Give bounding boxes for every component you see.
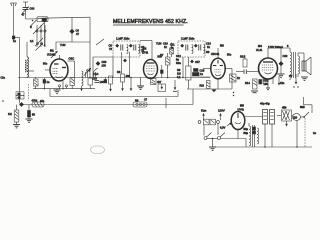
svg-text:4k7: 4k7 (157, 80, 162, 84)
svg-text:400: 400 (126, 74, 131, 78)
svg-text:R8: R8 (206, 50, 210, 54)
svg-text:40µ-40µ: 40µ-40µ (260, 102, 270, 106)
svg-text:100: 100 (102, 64, 107, 68)
svg-text:OSC: OSC (69, 57, 75, 61)
svg-text:50c: 50c (227, 53, 232, 57)
svg-text:150: 150 (264, 82, 269, 86)
svg-text:C8: C8 (109, 44, 113, 48)
svg-text:UBC41: UBC41 (211, 52, 220, 56)
svg-text:B3: B3 (220, 44, 224, 48)
svg-text:UL41: UL41 (256, 48, 263, 52)
svg-text:S: S (30, 25, 32, 29)
svg-text:TUN: TUN (156, 42, 161, 46)
svg-text:100: 100 (100, 80, 105, 84)
svg-text:TUN: TUN (60, 43, 65, 47)
svg-text:R8a: R8a (176, 61, 181, 65)
svg-text:C10: C10 (163, 42, 168, 46)
svg-text:B1: B1 (50, 49, 54, 53)
svg-text:GD.: GD. (40, 99, 45, 103)
svg-text:6,3V: 6,3V (220, 126, 226, 130)
svg-text:R14: R14 (245, 81, 250, 85)
svg-text:R15: R15 (264, 79, 269, 83)
svg-text:C57: C57 (195, 60, 200, 64)
svg-text:50µ: 50µ (244, 127, 249, 131)
svg-text:1M: 1M (177, 72, 181, 76)
svg-text:R7: R7 (160, 53, 164, 57)
svg-text:R9: R9 (177, 68, 181, 72)
svg-text:C4: C4 (87, 69, 91, 73)
svg-text:C12: C12 (176, 54, 181, 58)
svg-text:0,1: 0,1 (30, 39, 34, 43)
svg-text:C11: C11 (170, 43, 175, 47)
svg-text:50c: 50c (43, 62, 48, 66)
svg-text:R6: R6 (117, 70, 121, 74)
svg-text:0,1: 0,1 (177, 75, 181, 79)
svg-text:C56: C56 (102, 60, 107, 64)
svg-text:15n: 15n (280, 81, 285, 85)
svg-text:C1a: C1a (1, 77, 6, 80)
svg-text:C14: C14 (94, 72, 99, 76)
svg-text:C6: C6 (76, 29, 80, 33)
svg-text:110V: 110V (218, 109, 225, 113)
svg-text:450: 450 (282, 106, 287, 110)
svg-text:1.MF 2Mc: 1.MF 2Mc (116, 37, 130, 41)
svg-text:R10: R10 (200, 85, 205, 88)
svg-text:Sk2: Sk2 (300, 105, 305, 109)
svg-text:Kun: Kun (201, 109, 207, 113)
svg-text:EF41: EF41 (142, 51, 149, 55)
svg-text:C16: C16 (92, 77, 97, 81)
svg-text:B5: B5 (240, 104, 244, 108)
svg-text:R13: R13 (240, 55, 245, 59)
svg-text:C20: C20 (283, 54, 288, 58)
svg-text:UCH42: UCH42 (47, 53, 56, 57)
svg-text:C15: C15 (200, 69, 205, 73)
svg-text:MELLEMFREKVENS 452 KHZ.: MELLEMFREKVENS 452 KHZ. (113, 19, 188, 25)
svg-text:50µ: 50µ (244, 131, 249, 135)
svg-text:C13: C13 (206, 42, 211, 46)
svg-text:220: 220 (293, 116, 298, 119)
svg-text:B4: B4 (258, 44, 262, 48)
svg-text:2.MF 2Mc: 2.MF 2Mc (181, 37, 195, 41)
svg-text:C60: C60 (30, 7, 35, 11)
svg-text:1M: 1M (8, 112, 12, 116)
svg-text:B2: B2 (143, 47, 147, 51)
